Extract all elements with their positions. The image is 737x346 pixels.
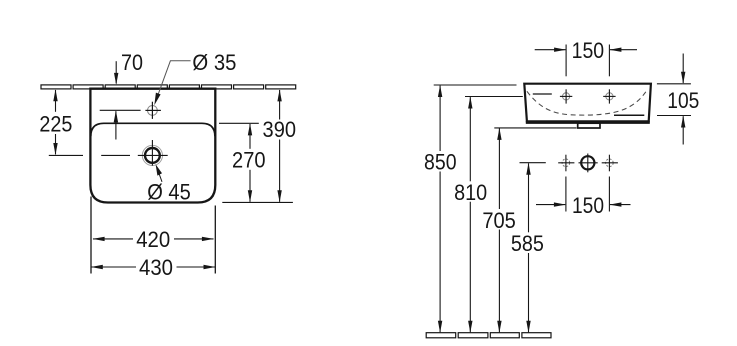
svg-text:225: 225 bbox=[39, 111, 72, 136]
faucet hole bbox=[148, 106, 158, 116]
faucet centerline bbox=[100, 109, 141, 111]
interior bottom line bbox=[614, 114, 644, 116]
basin outer outline bbox=[90, 89, 215, 203]
dim 430 bbox=[91, 265, 103, 269]
drain hole bbox=[142, 145, 162, 165]
dim 150 bottom bbox=[565, 177, 567, 212]
svg-text:105: 105 bbox=[667, 88, 699, 113]
svg-text:585: 585 bbox=[511, 231, 544, 256]
svg-text:150: 150 bbox=[572, 193, 604, 218]
interior dashed curve bbox=[527, 91, 646, 115]
dim 150 top bbox=[565, 45, 567, 77]
drain circles centerline bbox=[520, 162, 546, 164]
svg-text:70: 70 bbox=[121, 50, 143, 75]
drain crosshair bbox=[101, 154, 130, 156]
wall tile band bbox=[41, 85, 296, 89]
rim line short bbox=[533, 93, 552, 95]
svg-text:420: 420 bbox=[136, 227, 170, 252]
svg-text:150: 150 bbox=[572, 38, 605, 63]
svg-text:Ø 45: Ø 45 bbox=[147, 180, 191, 205]
bottom edge thick bbox=[526, 121, 650, 124]
dim 705 bbox=[494, 127, 576, 129]
svg-text:705: 705 bbox=[482, 208, 516, 233]
dim 225 bbox=[53, 89, 57, 101]
dim 105 bbox=[657, 83, 691, 85]
svg-text:430: 430 bbox=[139, 255, 173, 280]
dim 850 bbox=[434, 84, 517, 86]
svg-text:850: 850 bbox=[424, 150, 457, 175]
basin inner rim bbox=[91, 123, 215, 136]
leader Ø35 bbox=[155, 61, 190, 102]
drain large circle bbox=[581, 156, 594, 169]
drain small circle left bbox=[562, 159, 570, 167]
svg-text:Ø 35: Ø 35 bbox=[192, 50, 236, 75]
fixing hole right bbox=[606, 93, 613, 100]
dim 585 bbox=[526, 163, 530, 175]
svg-text:390: 390 bbox=[263, 117, 297, 142]
dim 420 / 430 extension lines bbox=[90, 197, 92, 274]
faucet crosshair bbox=[145, 109, 161, 111]
dim 810 bbox=[465, 96, 523, 98]
svg-text:810: 810 bbox=[454, 180, 487, 205]
leader Ø45 bbox=[158, 172, 162, 182]
dim 420 bbox=[93, 237, 105, 241]
dim 390 bbox=[277, 89, 281, 101]
basin body bbox=[524, 84, 651, 122]
trap cover bbox=[578, 123, 600, 128]
drain small circle right bbox=[606, 159, 614, 167]
svg-text:270: 270 bbox=[232, 148, 266, 173]
dim 270 bbox=[248, 123, 252, 135]
floor tile band bbox=[426, 333, 551, 338]
fixing hole left bbox=[563, 93, 570, 100]
dim 70 bbox=[115, 61, 117, 83]
